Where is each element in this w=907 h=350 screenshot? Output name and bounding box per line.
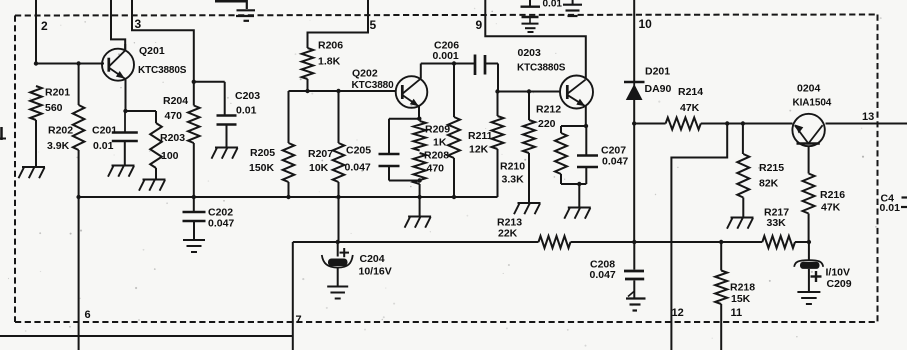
svg-text:1.8K: 1.8K bbox=[318, 56, 341, 68]
svg-text:DA90: DA90 bbox=[645, 83, 672, 95]
svg-text:R214: R214 bbox=[678, 86, 703, 98]
svg-text:82K: 82K bbox=[759, 178, 779, 190]
svg-text:9: 9 bbox=[476, 18, 483, 32]
transistor Q204 bbox=[792, 114, 824, 146]
junction rail/R208 bbox=[417, 195, 421, 199]
ground R203 bbox=[139, 180, 166, 191]
Q203 emitter wire bbox=[585, 106, 587, 126]
svg-text:6: 6 bbox=[85, 309, 91, 321]
Q202 emitter wire bbox=[418, 107, 420, 120]
svg-text:R211: R211 bbox=[468, 130, 493, 142]
svg-text:470: 470 bbox=[427, 163, 445, 175]
bottom rail middle bbox=[571, 241, 763, 243]
second earth ground (top edge, cut off) bbox=[572, 0, 574, 4]
resistor R204 bbox=[188, 106, 200, 144]
svg-text:C205: C205 bbox=[346, 145, 371, 157]
diode D201 bbox=[633, 82, 635, 100]
svg-text:R218: R218 bbox=[730, 282, 755, 294]
junction collector/R211 node bbox=[452, 61, 456, 65]
svg-text:0.01: 0.01 bbox=[236, 105, 257, 117]
resistor R203 bbox=[150, 123, 162, 168]
junction rail/R211 bbox=[452, 195, 456, 199]
svg-text:0.047: 0.047 bbox=[602, 156, 628, 168]
resistor R218 bbox=[720, 242, 722, 271]
ground rail bbox=[79, 196, 498, 198]
svg-text:11: 11 bbox=[731, 307, 743, 319]
junction C206/base bbox=[495, 89, 499, 93]
junction Q201 emitter node bbox=[123, 109, 127, 113]
svg-text:R203: R203 bbox=[160, 132, 185, 144]
svg-text:0.047: 0.047 bbox=[345, 162, 371, 174]
junction R204 top node bbox=[192, 80, 196, 84]
partial ground (top edge, cut off) bbox=[215, 0, 247, 3]
resistor R206 bbox=[302, 48, 314, 79]
svg-text:KTC3880: KTC3880 bbox=[352, 80, 395, 91]
transistor Q203 bbox=[560, 76, 593, 109]
capacitor C206 bbox=[475, 55, 485, 76]
junction feedback node bbox=[725, 121, 729, 125]
ground R208 bbox=[405, 217, 432, 228]
svg-text:3.3K: 3.3K bbox=[502, 174, 525, 186]
svg-text:R209: R209 bbox=[425, 124, 450, 136]
svg-text:3.9K: 3.9K bbox=[47, 140, 70, 152]
svg-text:C204: C204 bbox=[360, 253, 385, 265]
Q203 base rail bbox=[497, 91, 561, 93]
svg-text:7: 7 bbox=[296, 314, 302, 326]
capacitor C203 bbox=[224, 82, 226, 115]
resistor R216 bbox=[803, 174, 815, 214]
junction rail/R204/C202 bbox=[192, 195, 196, 199]
pin 5 entry wire to R206 bbox=[308, 0, 369, 48]
pin 9 entry wire to Q203 collector bbox=[485, 0, 586, 80]
svg-text:R205: R205 bbox=[250, 147, 275, 159]
junction C208/rail bbox=[632, 240, 636, 244]
wire R214 to Q204 bbox=[701, 123, 793, 125]
svg-text:0.047: 0.047 bbox=[208, 218, 234, 230]
C209 plus sign bbox=[811, 271, 822, 282]
emitter resistor (R212 body) loop bbox=[561, 125, 586, 127]
C4 lead stubs at right edge bbox=[902, 196, 907, 198]
svg-text:12: 12 bbox=[672, 307, 684, 319]
ground C201 bbox=[108, 166, 135, 177]
Q201 emitter wire bbox=[125, 80, 127, 112]
junction R215 node bbox=[741, 121, 745, 125]
svg-text:R215: R215 bbox=[759, 162, 784, 174]
svg-text:KIA1504: KIA1504 bbox=[793, 98, 832, 109]
ground C203 bbox=[212, 148, 239, 159]
junction R212/base bbox=[527, 89, 531, 93]
bottom rail bbox=[293, 241, 539, 243]
resistor R211 bbox=[453, 64, 455, 118]
feedback wire to pin 12 bbox=[671, 124, 727, 350]
junction Q202 emitter node bbox=[417, 117, 421, 121]
left edge mark bbox=[0, 127, 3, 140]
junction rail/R207 bbox=[336, 195, 340, 199]
svg-text:0.01: 0.01 bbox=[93, 140, 114, 152]
wire R217 to C209 node bbox=[795, 241, 809, 243]
ground C204 (earth) bbox=[327, 287, 348, 299]
bottom solid line bbox=[0, 335, 293, 337]
Q201 collector stub bbox=[124, 44, 126, 51]
capacitor C201 bbox=[124, 111, 126, 132]
svg-text:100: 100 bbox=[161, 150, 179, 162]
svg-text:10K: 10K bbox=[309, 162, 329, 174]
resistor R205 bbox=[288, 91, 290, 143]
ground R212 bbox=[514, 203, 541, 214]
svg-text:22K: 22K bbox=[498, 228, 518, 240]
svg-text:C209: C209 bbox=[827, 278, 852, 290]
svg-text:R207: R207 bbox=[308, 148, 333, 160]
svg-text:5: 5 bbox=[370, 18, 377, 32]
ground R215 bbox=[727, 218, 754, 229]
svg-text:150K: 150K bbox=[249, 162, 275, 174]
svg-text:0.047: 0.047 bbox=[590, 269, 616, 281]
junction base/R202 bbox=[76, 61, 80, 65]
svg-text:R204: R204 bbox=[163, 95, 188, 107]
ground Q203 emitter bbox=[564, 208, 591, 219]
svg-text:12K: 12K bbox=[469, 144, 489, 156]
resistor R215 bbox=[742, 124, 744, 155]
transistor Q201 bbox=[102, 49, 134, 81]
svg-text:15K: 15K bbox=[731, 293, 751, 305]
svg-text:R216: R216 bbox=[820, 189, 845, 201]
svg-text:0.01: 0.01 bbox=[880, 202, 901, 214]
svg-text:2: 2 bbox=[41, 19, 48, 33]
junction C204/rail bbox=[336, 240, 340, 244]
wire R204 node to C203 bbox=[194, 81, 225, 83]
ground C202 (earth) bbox=[183, 240, 205, 252]
C204 plus sign bbox=[340, 248, 350, 257]
resistor R212 bbox=[528, 92, 530, 121]
pin 10 entry wire to D201 bbox=[633, 0, 635, 82]
junction D201/output wire bbox=[632, 121, 636, 125]
svg-text:0204: 0204 bbox=[797, 83, 821, 95]
svg-text:47K: 47K bbox=[821, 202, 841, 214]
junction rail/R202 bbox=[76, 195, 80, 199]
resistor R202 bbox=[73, 105, 85, 150]
svg-text:KTC3880S: KTC3880S bbox=[517, 63, 566, 74]
pin 2 entry wire bbox=[35, 0, 37, 64]
svg-text:R206: R206 bbox=[318, 40, 343, 52]
junction R207/base rail bbox=[336, 89, 340, 93]
resistor R210 bbox=[492, 116, 504, 149]
svg-text:C201: C201 bbox=[92, 125, 117, 137]
junction emitter loop bottom bbox=[577, 182, 581, 186]
base wire node 2 to Q201 bbox=[36, 63, 104, 65]
resistor R214 bbox=[666, 118, 701, 130]
svg-text:13: 13 bbox=[862, 111, 874, 123]
svg-text:0.01: 0.01 bbox=[543, 0, 563, 9]
svg-text:10: 10 bbox=[639, 17, 653, 31]
svg-text:C203: C203 bbox=[235, 90, 260, 102]
svg-text:0203: 0203 bbox=[518, 47, 542, 59]
capacitor C202 bbox=[193, 197, 195, 211]
svg-text:I/10V: I/10V bbox=[826, 267, 851, 279]
svg-text:470: 470 bbox=[165, 110, 183, 122]
ground C209 (earth) bbox=[797, 292, 820, 304]
capacitor C208 bbox=[633, 242, 635, 270]
resistor R207 bbox=[338, 91, 340, 143]
resistor R217 bbox=[762, 236, 795, 248]
svg-text:10/16V: 10/16V bbox=[359, 266, 392, 278]
junction Q203 emitter node bbox=[584, 124, 588, 128]
junction R206/base rail bbox=[305, 89, 309, 93]
svg-text:47K: 47K bbox=[680, 102, 700, 114]
junction base/R201 bbox=[34, 61, 38, 65]
capacitor C205 bypass loop bbox=[389, 118, 419, 120]
svg-text:R208: R208 bbox=[424, 150, 449, 162]
junction rail/R205 bbox=[286, 195, 290, 199]
svg-text:R212: R212 bbox=[536, 104, 561, 116]
R201 lower wire bbox=[35, 120, 37, 167]
junction C209/R216 node bbox=[807, 240, 811, 244]
svg-text:Q202: Q202 bbox=[352, 68, 378, 80]
svg-text:1K: 1K bbox=[433, 137, 447, 149]
svg-text:D201: D201 bbox=[645, 66, 670, 78]
svg-text:220: 220 bbox=[538, 118, 556, 130]
ground R201 bbox=[19, 167, 46, 178]
junction C205/R208 bottom bbox=[417, 178, 421, 182]
capacitor C204 (electrolytic) bbox=[337, 242, 339, 257]
Q202 collector wire bbox=[420, 64, 422, 79]
junction R218/rail bbox=[719, 240, 723, 244]
resistor R201 bbox=[30, 86, 42, 120]
capacitor C207 bbox=[585, 126, 587, 155]
svg-text:560: 560 bbox=[45, 102, 63, 114]
svg-text:Q201: Q201 bbox=[139, 45, 165, 57]
resistor R213 bbox=[539, 236, 571, 248]
output wire to R214 bbox=[634, 123, 665, 125]
svg-text:KTC3880S: KTC3880S bbox=[138, 65, 187, 76]
svg-text:R202: R202 bbox=[48, 125, 73, 137]
bottom rail left drop bbox=[292, 242, 294, 350]
wire Q202 collector to C206 bbox=[421, 63, 475, 65]
resistor R209 bbox=[413, 121, 425, 151]
output wire pin 13 bbox=[826, 123, 907, 125]
svg-text:R201: R201 bbox=[45, 87, 70, 99]
emitter loop ground wire bbox=[578, 184, 580, 207]
capacitor C209 (electrolytic) bbox=[808, 242, 810, 260]
pin 3 entry wire to Q201 collector bbox=[111, 0, 125, 51]
pin 3 second entry wire to R204 node bbox=[132, 0, 194, 82]
svg-text:3: 3 bbox=[135, 17, 142, 31]
transistor Q202 bbox=[396, 76, 428, 108]
Q204 emitter wire bbox=[808, 146, 810, 174]
svg-text:R210: R210 bbox=[500, 161, 525, 173]
Q202 base rail bbox=[289, 90, 397, 92]
resistor R208 bbox=[413, 153, 425, 184]
svg-text:0.001: 0.001 bbox=[433, 50, 459, 62]
svg-text:33K: 33K bbox=[767, 217, 787, 229]
R203 top wire bbox=[126, 110, 157, 112]
R202 wire down to bottom bbox=[78, 64, 80, 106]
capacitor to ground (top edge, cut off) bbox=[529, 0, 531, 6]
scan speckle texture bbox=[295, 53, 297, 55]
